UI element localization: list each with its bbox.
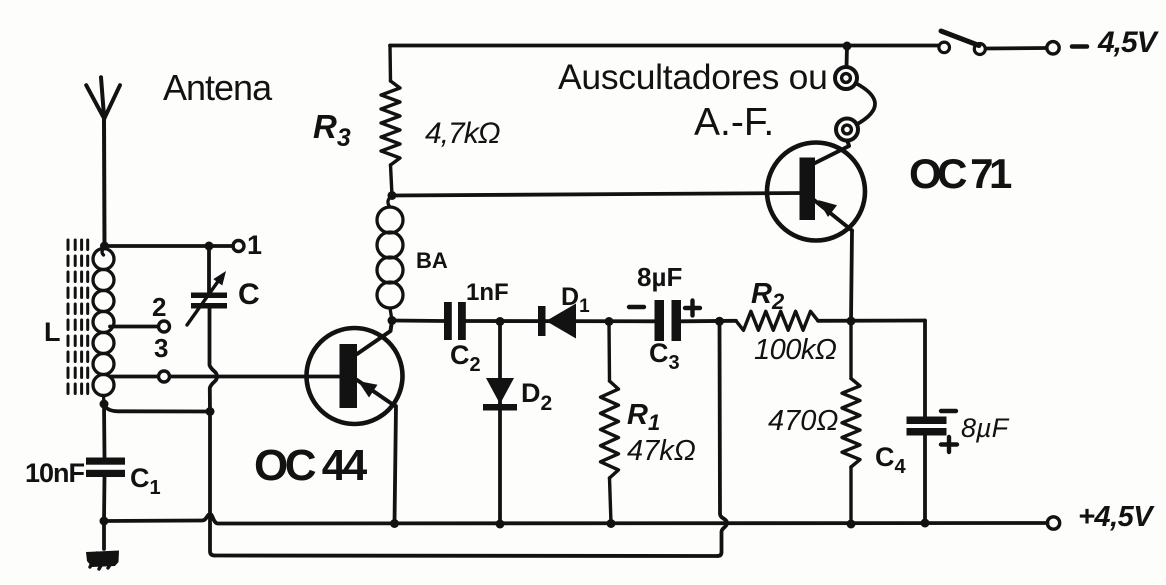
diode D2 (483, 322, 517, 524)
wire C2 to C3 (466, 319, 654, 323)
svg-text:100kΩ: 100kΩ (754, 334, 837, 366)
svg-text:D2: D2 (521, 378, 552, 415)
resistor R3 (381, 46, 400, 196)
wire jack curve (856, 83, 876, 125)
capacitor C3 (655, 300, 682, 341)
antenna (86, 77, 120, 246)
label minus C4 (941, 409, 956, 413)
node C3-R2 junction (715, 317, 724, 326)
wire bottom rail (102, 514, 1048, 524)
capacitor C4 (907, 321, 947, 524)
node coil bottom junction (100, 400, 109, 409)
transistor Q1 OC44 (307, 321, 403, 425)
inductor BA (377, 196, 403, 321)
node junction cap branch (206, 407, 215, 416)
node R1 rail junction (607, 519, 616, 528)
transistor Q2 OC71 (767, 141, 865, 241)
wire R2 to C4 branch (818, 319, 925, 323)
jack J1 (835, 67, 857, 89)
svg-text:10nF: 10nF (25, 458, 85, 488)
svg-text:47kΩ: 47kΩ (627, 435, 696, 467)
svg-text:1nF: 1nF (466, 279, 509, 306)
node terminal 3 (159, 371, 170, 382)
resistor R2 (736, 311, 818, 330)
svg-text:Antena: Antena (163, 67, 273, 108)
wire OC71 emitter down (851, 231, 852, 322)
svg-text:4,7kΩ: 4,7kΩ (425, 117, 500, 150)
svg-text:C1: C1 (130, 463, 161, 499)
label plus C4 (941, 437, 957, 452)
svg-text:Auscultadores ou: Auscultadores ou (558, 57, 828, 97)
wire R3 junction to OC71 base (392, 193, 803, 196)
wire tap 2 (110, 325, 158, 329)
node D2 junction (496, 317, 505, 326)
node junction to tuning cap (205, 242, 214, 251)
node emitter-rail junction (390, 519, 399, 528)
svg-text:R3: R3 (313, 108, 351, 152)
svg-text:8µF: 8µF (637, 262, 682, 292)
svg-text:C4: C4 (875, 442, 907, 478)
node D2 rail junction (496, 520, 505, 529)
svg-text:OC 44: OC 44 (254, 441, 368, 490)
label -4,5V (1072, 44, 1087, 49)
node R1 top junction (605, 317, 614, 326)
svg-text:2: 2 (152, 292, 166, 322)
node rail left junction (100, 517, 109, 526)
svg-text:4,5V: 4,5V (1097, 26, 1160, 59)
svg-text:3: 3 (154, 333, 168, 363)
wire C3 junction down with hop over rail (718, 322, 728, 556)
capacitor C1 (86, 404, 125, 521)
jack J2 (836, 119, 858, 141)
wire lower return rail (215, 554, 718, 558)
wire collector line to C2 (392, 319, 444, 323)
wire to jack J1 (845, 46, 849, 67)
svg-text:C2: C2 (450, 340, 481, 376)
svg-text:8µF: 8µF (961, 413, 1010, 443)
capacitor C2 (444, 302, 466, 340)
diode D1 (538, 304, 576, 339)
wire tap 3 to OC44 base (110, 375, 158, 379)
node C4 rail junction (921, 519, 930, 528)
svg-text:R2: R2 (751, 278, 785, 314)
node terminal 2 (159, 321, 170, 332)
node R2 right junction (847, 317, 856, 326)
svg-text:R1: R1 (627, 399, 660, 435)
label plus C3 (685, 301, 700, 316)
svg-text:A.-F.: A.-F. (694, 101, 774, 144)
resistor R1 (601, 322, 619, 524)
svg-text:C3: C3 (649, 338, 680, 374)
svg-text:OC 71: OC 71 (909, 150, 1012, 197)
wire OC44 emitter down (395, 406, 397, 524)
wire C3 to R2 (681, 319, 736, 323)
wire cap C down with hop over tap3 wire (210, 309, 218, 412)
svg-text:C: C (238, 278, 260, 311)
node 470 rail junction (847, 520, 856, 529)
svg-text:470Ω: 470Ω (768, 405, 838, 437)
node coil-top junction (100, 242, 109, 251)
node jack top junction (843, 42, 852, 51)
wire terminal 3 to OC44 base (170, 375, 339, 379)
svg-text:1: 1 (247, 230, 262, 260)
node terminal 1 (233, 241, 244, 252)
wire antenna to terminal 1 (105, 244, 233, 248)
wire top rail (390, 44, 939, 48)
wire coil bottom to cap branch (104, 404, 210, 412)
wire tuning cap branch (207, 246, 211, 293)
ground (86, 521, 119, 569)
node terminal +4.5V (1047, 517, 1059, 529)
switch S1 (939, 31, 1046, 55)
inductor L coil (93, 246, 114, 404)
wire cap branch down to lower rail (210, 412, 215, 556)
capacitor C variable (187, 271, 227, 325)
label minus C3 (629, 305, 644, 309)
svg-text:L: L (44, 317, 61, 347)
node R3 bottom junction (388, 191, 397, 200)
resistor 470 Ohm (842, 321, 860, 524)
inductor L ferrite core (68, 240, 88, 397)
svg-text:BA: BA (416, 248, 448, 273)
svg-text:+4,5V: +4,5V (1078, 501, 1155, 533)
node terminal -4.5V (1047, 42, 1059, 54)
node BA bottom junction (388, 316, 397, 325)
